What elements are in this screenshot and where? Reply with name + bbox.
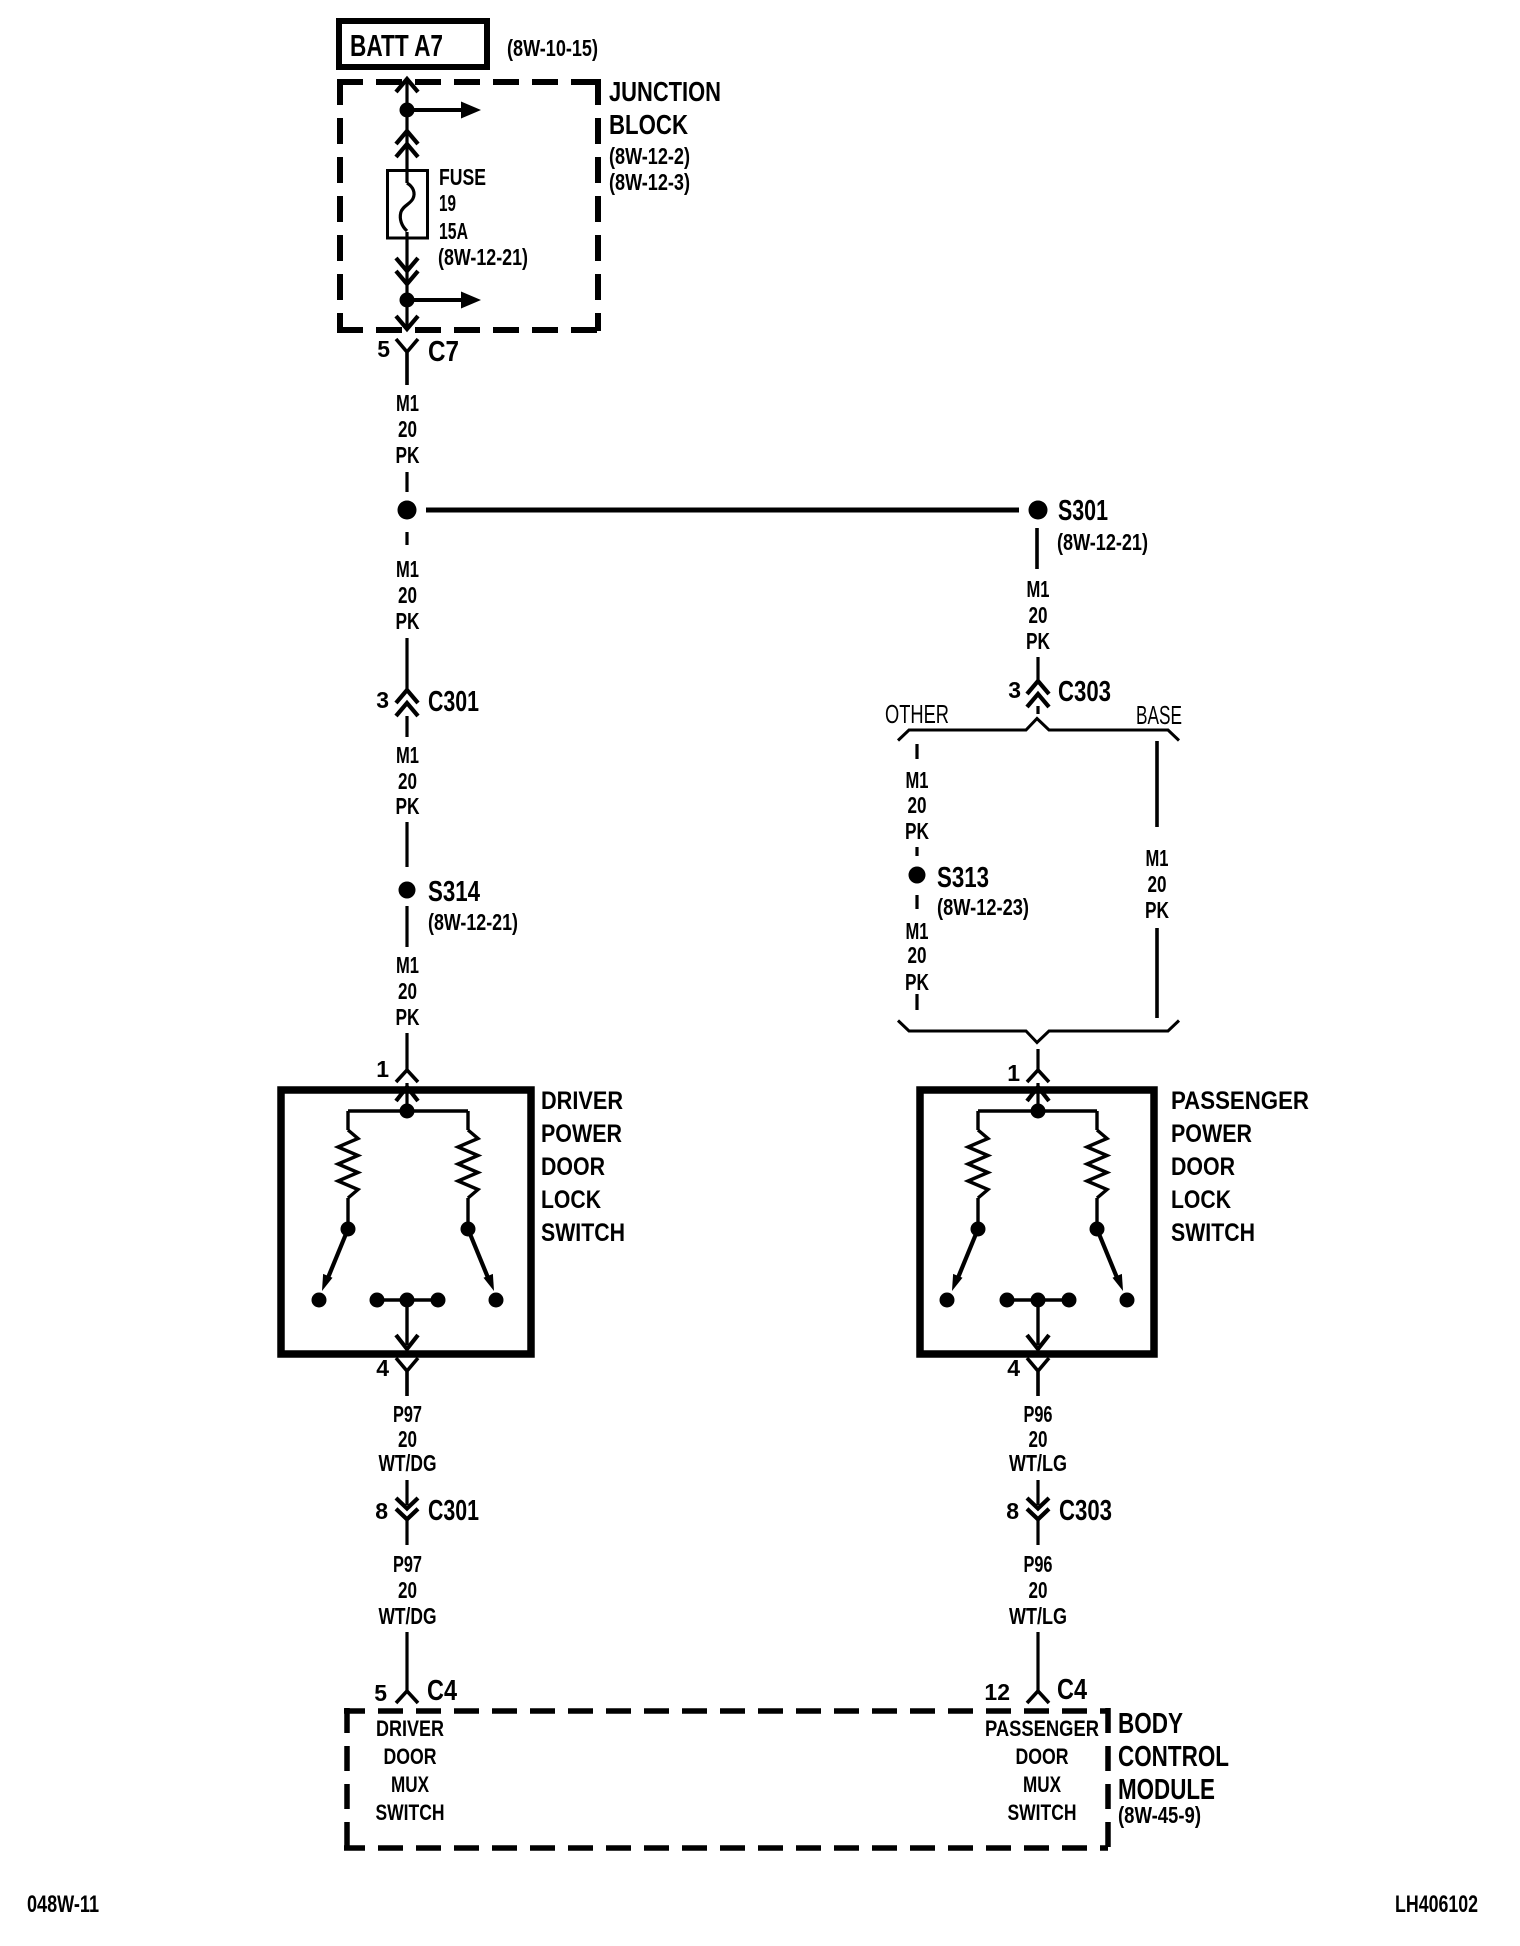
svg-text:5: 5	[374, 1680, 387, 1706]
passenger power door lock switch left resistor lead	[976, 1198, 979, 1222]
svg-text:PASSENGER: PASSENGER	[985, 1716, 1099, 1741]
passenger power door lock switch left resistor	[968, 1130, 988, 1198]
svg-text:5: 5	[377, 336, 390, 362]
svg-text:P96: P96	[1024, 1551, 1053, 1577]
fuse 19 15A box	[388, 171, 428, 239]
svg-text:C303: C303	[1058, 676, 1111, 708]
passenger power door lock switch terminal 1	[940, 1293, 955, 1308]
svg-text:JUNCTION: JUNCTION	[609, 76, 721, 107]
svg-text:P97: P97	[393, 1401, 422, 1427]
driver power door lock switch right resistor	[458, 1130, 478, 1198]
driver power door lock switch left switch arm	[328, 1229, 348, 1278]
svg-text:PK: PK	[1145, 897, 1169, 923]
wire to S301	[426, 508, 1019, 513]
wire below C303 pin 8	[1036, 1520, 1039, 1545]
svg-text:DRIVER: DRIVER	[541, 1087, 623, 1115]
OTHER branch dash 1	[915, 744, 918, 759]
svg-text:(8W-45-9): (8W-45-9)	[1118, 1802, 1201, 1828]
svg-text:M1: M1	[1027, 576, 1050, 602]
connector C301 double chevron down	[396, 1498, 418, 1519]
svg-text:WT/LG: WT/LG	[1009, 1603, 1067, 1629]
svg-text:OTHER: OTHER	[885, 699, 949, 729]
svg-text:M1: M1	[396, 390, 419, 416]
svg-text:PK: PK	[905, 969, 929, 995]
svg-text:PK: PK	[905, 818, 929, 844]
svg-text:DOOR: DOOR	[1171, 1153, 1235, 1181]
svg-text:P96: P96	[1024, 1401, 1053, 1427]
driver power door lock switch terminal 4	[431, 1293, 446, 1308]
svg-text:C301: C301	[428, 1495, 479, 1527]
connector C4 fork passenger side	[1027, 1691, 1049, 1703]
wire to passenger switch pin 1	[1036, 1049, 1039, 1070]
connector C303 double chevron down	[1027, 1498, 1049, 1519]
driver power door lock switch left resistor lead	[346, 1198, 349, 1222]
passenger power door lock switch internal bus	[978, 1109, 1097, 1112]
svg-text:LH406102: LH406102	[1395, 1891, 1478, 1918]
svg-text:20: 20	[398, 582, 417, 608]
passenger power door lock switch internal feed wire	[1036, 1083, 1039, 1111]
OTHER branch dash 2	[915, 847, 918, 856]
option split brace OTHER/BASE	[898, 719, 1179, 741]
svg-text:P97: P97	[393, 1551, 422, 1577]
battery feed box BATT A7	[339, 21, 487, 67]
wire above S314	[405, 822, 408, 867]
driver power door lock switch right resistor lead	[466, 1198, 469, 1222]
wire below S301	[1035, 528, 1039, 569]
wire below C303	[1036, 706, 1039, 714]
svg-text:WT/DG: WT/DG	[379, 1603, 437, 1629]
svg-text:C4: C4	[427, 1675, 457, 1707]
wire from fuse to junction block bottom	[405, 232, 408, 329]
svg-text:1: 1	[1007, 1060, 1020, 1086]
OTHER branch dash 3	[915, 895, 918, 909]
connector C301 double chevron	[396, 690, 418, 716]
svg-text:20: 20	[398, 416, 417, 442]
passenger power door lock switch right contact	[1090, 1222, 1105, 1237]
splice S313	[909, 867, 926, 884]
svg-text:SWITCH: SWITCH	[376, 1800, 445, 1825]
wire below C301 pin 8	[405, 1520, 408, 1545]
svg-text:POWER: POWER	[541, 1120, 622, 1148]
connector fork at driver switch	[396, 1070, 418, 1082]
wire to C303 pin 8	[1036, 1480, 1039, 1505]
driver power door lock switch internal junction	[400, 1104, 415, 1119]
svg-text:19: 19	[439, 190, 456, 216]
passenger power door lock switch left leg	[976, 1111, 979, 1130]
inline connector double chevron below fuse	[396, 258, 418, 284]
connector chevron at junction block top	[396, 79, 418, 92]
driver power door lock switch right switch arm	[468, 1229, 488, 1278]
svg-text:20: 20	[1148, 871, 1167, 897]
svg-text:20: 20	[398, 1426, 417, 1452]
wire to C303	[1036, 657, 1039, 681]
junction dot upper	[400, 103, 415, 118]
junction block dashed box	[337, 79, 601, 331]
wire segment above splice	[405, 472, 408, 492]
driver power door lock switch left resistor	[338, 1130, 358, 1198]
connector C303 double chevron	[1027, 681, 1049, 707]
svg-text:SWITCH: SWITCH	[1171, 1219, 1255, 1247]
wire to BCM pin 5	[405, 1632, 408, 1691]
BASE branch wire upper	[1155, 741, 1159, 827]
svg-text:BATT A7: BATT A7	[350, 28, 443, 63]
svg-text:20: 20	[1029, 1426, 1048, 1452]
svg-text:S301: S301	[1058, 495, 1108, 527]
svg-text:8: 8	[1006, 1498, 1019, 1524]
junction dot lower	[400, 293, 415, 308]
passenger power door lock switch output wire	[1036, 1300, 1039, 1345]
svg-text:C4: C4	[1057, 1674, 1087, 1706]
inline connector double chevron above fuse	[396, 131, 418, 157]
svg-text:PK: PK	[396, 793, 420, 819]
driver power door lock switch internal bus	[348, 1109, 468, 1112]
driver power door lock switch terminal bus	[377, 1298, 438, 1301]
driver power door lock switch left leg	[346, 1111, 349, 1130]
svg-text:C7: C7	[428, 336, 459, 368]
svg-text:M1: M1	[396, 742, 419, 768]
svg-text:LOCK: LOCK	[1171, 1186, 1231, 1214]
driver power door lock switch right contact	[461, 1222, 476, 1237]
BASE branch wire lower	[1155, 928, 1159, 1018]
connector C7 symbol	[396, 339, 418, 385]
connector symbol pin 4 passenger	[1027, 1358, 1049, 1396]
svg-text:DOOR: DOOR	[384, 1744, 437, 1769]
svg-text:MUX: MUX	[391, 1772, 429, 1797]
svg-text:PK: PK	[1026, 628, 1050, 654]
passenger power door lock switch left switch arm	[958, 1229, 978, 1278]
svg-text:C303: C303	[1059, 1495, 1112, 1527]
svg-text:20: 20	[1029, 602, 1048, 628]
svg-text:20: 20	[1029, 1577, 1048, 1603]
svg-text:DRIVER: DRIVER	[376, 1716, 444, 1741]
fuse element curve	[400, 183, 414, 231]
svg-text:M1: M1	[906, 918, 929, 944]
driver power door lock switch chevron at box top	[396, 1087, 418, 1101]
svg-text:S313: S313	[937, 862, 989, 894]
svg-text:POWER: POWER	[1171, 1120, 1252, 1148]
svg-text:4: 4	[1007, 1355, 1020, 1381]
passenger power door lock switch right switch arm	[1097, 1229, 1117, 1278]
passenger power door lock switch right resistor	[1087, 1130, 1107, 1198]
svg-text:WT/DG: WT/DG	[379, 1450, 437, 1476]
svg-text:DOOR: DOOR	[541, 1153, 605, 1181]
passenger power door lock switch terminal bus	[1007, 1298, 1069, 1301]
svg-text:PASSENGER: PASSENGER	[1171, 1087, 1309, 1115]
svg-text:CONTROL: CONTROL	[1118, 1741, 1229, 1773]
driver power door lock switch output wire	[405, 1300, 408, 1345]
svg-text:WT/LG: WT/LG	[1009, 1450, 1067, 1476]
wire segment below splice	[405, 532, 408, 545]
svg-text:20: 20	[398, 1577, 417, 1603]
svg-text:(8W-12-21): (8W-12-21)	[1057, 529, 1148, 555]
svg-text:SWITCH: SWITCH	[1008, 1800, 1077, 1825]
svg-text:(8W-12-23): (8W-12-23)	[937, 894, 1029, 920]
wire to BCM pin 12	[1036, 1632, 1039, 1691]
svg-text:20: 20	[908, 942, 927, 968]
svg-text:S314: S314	[428, 876, 480, 908]
passenger power door lock switch internal junction	[1031, 1104, 1046, 1119]
svg-text:8: 8	[375, 1498, 388, 1524]
svg-text:PK: PK	[396, 442, 420, 468]
svg-text:SWITCH: SWITCH	[541, 1219, 625, 1247]
connector chevron at junction block bottom	[396, 316, 418, 329]
wire below S314	[405, 906, 408, 947]
wire from BATT A7 into junction block	[405, 82, 408, 183]
passenger power door lock switch terminal 2	[1000, 1293, 1015, 1308]
svg-text:15A: 15A	[439, 218, 468, 244]
svg-text:4: 4	[376, 1355, 389, 1381]
svg-text:LOCK: LOCK	[541, 1186, 601, 1214]
svg-text:M1: M1	[1146, 845, 1169, 871]
svg-text:(8W-12-3): (8W-12-3)	[609, 169, 690, 195]
svg-text:12: 12	[984, 1679, 1010, 1705]
driver power door lock switch left contact	[341, 1222, 356, 1237]
arrow to other circuits upper	[414, 108, 461, 112]
body control module dashed box	[344, 1708, 1108, 1851]
svg-text:M1: M1	[396, 556, 419, 582]
svg-text:1: 1	[376, 1056, 389, 1082]
svg-text:C301: C301	[428, 686, 479, 718]
wire down to C301	[405, 638, 408, 690]
svg-text:BODY: BODY	[1118, 1708, 1183, 1740]
connector fork at passenger switch	[1027, 1070, 1049, 1082]
driver power door lock switch terminal 5	[489, 1293, 504, 1308]
splice S314	[399, 882, 416, 899]
option merge brace	[898, 1021, 1179, 1043]
driver power door lock switch right leg	[466, 1111, 469, 1130]
svg-text:PK: PK	[396, 608, 420, 634]
wire below C301	[405, 716, 408, 737]
passenger power door lock switch right leg	[1095, 1111, 1098, 1130]
svg-text:BASE: BASE	[1136, 700, 1182, 730]
passenger power door lock switch terminal 3	[1031, 1293, 1046, 1308]
connector symbol pin 4 driver	[396, 1358, 418, 1396]
svg-text:3: 3	[1008, 677, 1021, 703]
splice S301	[1029, 501, 1048, 520]
svg-text:M1: M1	[396, 952, 419, 978]
driver power door lock switch terminal 2	[370, 1293, 385, 1308]
svg-text:DOOR: DOOR	[1016, 1744, 1069, 1769]
svg-text:FUSE: FUSE	[439, 164, 486, 190]
driver power door lock switch internal feed wire	[405, 1083, 408, 1111]
svg-text:(8W-12-21): (8W-12-21)	[428, 909, 518, 935]
svg-text:20: 20	[908, 792, 927, 818]
passenger power door lock switch chevron at box bottom	[1027, 1335, 1049, 1349]
splice node to S301	[398, 501, 417, 520]
passenger power door lock switch terminal 4	[1062, 1293, 1077, 1308]
svg-text:BLOCK: BLOCK	[609, 109, 688, 140]
passenger power door lock switch right resistor lead	[1095, 1198, 1098, 1222]
svg-text:(8W-12-21): (8W-12-21)	[438, 244, 528, 270]
arrow to other circuits lower	[414, 298, 461, 302]
driver power door lock switch terminal 1	[312, 1293, 327, 1308]
svg-text:PK: PK	[396, 1004, 420, 1030]
passenger power door lock switch chevron at box top	[1027, 1087, 1049, 1101]
wire to C301 pin 8	[405, 1480, 408, 1505]
svg-text:MUX: MUX	[1023, 1772, 1061, 1797]
OTHER branch dash 4	[915, 994, 918, 1010]
svg-text:3: 3	[376, 687, 389, 713]
svg-text:20: 20	[398, 768, 417, 794]
passenger power door lock switch box	[920, 1090, 1154, 1354]
driver power door lock switch chevron at box bottom	[396, 1335, 418, 1349]
passenger power door lock switch terminal 5	[1120, 1293, 1135, 1308]
driver power door lock switch box	[281, 1090, 531, 1354]
svg-text:(8W-12-2): (8W-12-2)	[609, 143, 690, 169]
svg-text:M1: M1	[906, 767, 929, 793]
wire to driver switch pin 1	[405, 1033, 408, 1070]
connector C4 fork driver side	[396, 1691, 418, 1703]
svg-text:048W-11: 048W-11	[27, 1891, 99, 1918]
svg-text:(8W-10-15): (8W-10-15)	[507, 35, 598, 61]
svg-text:20: 20	[398, 978, 417, 1004]
passenger power door lock switch left contact	[971, 1222, 986, 1237]
driver power door lock switch terminal 3	[400, 1293, 415, 1308]
